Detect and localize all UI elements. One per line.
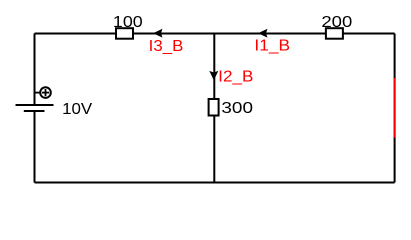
svg-text:300: 300 xyxy=(221,100,253,117)
current arrow I2_B xyxy=(210,72,218,80)
battery plus terminal marker xyxy=(35,87,51,98)
wire left below battery xyxy=(34,111,36,183)
svg-text:I3_B: I3_B xyxy=(149,38,184,55)
svg-text:200: 200 xyxy=(321,14,352,31)
wire top (node between R100, R200 and middle branch) xyxy=(35,33,395,35)
highlighted wire segment (right branch, selected) xyxy=(394,78,396,138)
svg-text:I2_B: I2_B xyxy=(218,69,253,86)
current arrow I1_B xyxy=(259,29,267,37)
svg-text:I1_B: I1_B xyxy=(254,37,290,54)
resistor R 300 xyxy=(209,99,219,116)
wire left above battery xyxy=(34,34,36,106)
resistor R 200 xyxy=(326,28,343,39)
svg-text:100: 100 xyxy=(113,14,143,31)
wire bottom (ground return) xyxy=(35,182,395,184)
current arrow I3_B xyxy=(154,29,162,37)
svg-text:10V: 10V xyxy=(62,101,92,118)
resistor R 100 xyxy=(116,28,133,39)
wire middle branch xyxy=(213,34,215,183)
wire right branch xyxy=(394,34,396,183)
battery V1 10V xyxy=(16,105,54,111)
